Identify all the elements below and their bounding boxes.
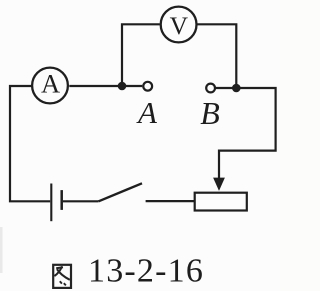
wire: node B to top-right corner down to rheostat slider xyxy=(216,88,276,179)
voltmeter V body xyxy=(161,7,197,43)
wire: ammeter left lead down to battery xyxy=(10,86,50,201)
svg-text:13-2-16: 13-2-16 xyxy=(88,253,204,290)
wire: voltmeter left lead xyxy=(122,24,160,86)
svg-text:A: A xyxy=(136,95,158,130)
switch S blade xyxy=(99,183,142,201)
svg-text:A: A xyxy=(41,68,60,98)
wire: battery to switch xyxy=(63,200,99,202)
rheostat slider arrowhead xyxy=(213,178,225,191)
junction dot at node A side xyxy=(118,82,127,91)
caption glyph 图 (drawn) xyxy=(53,265,71,288)
svg-text:V: V xyxy=(170,11,189,40)
rheostat R body xyxy=(195,193,247,211)
wire: voltmeter right lead xyxy=(197,24,236,88)
terminal A (open circle) xyxy=(143,82,152,91)
svg-text:B: B xyxy=(200,95,220,131)
wire: ammeter right lead to node A xyxy=(69,85,142,87)
battery: long thin plate xyxy=(50,184,52,222)
battery: short thick plate xyxy=(60,190,63,210)
junction dot at node B side xyxy=(232,84,241,93)
ammeter A body xyxy=(32,68,68,104)
scan smudge left edge xyxy=(0,227,3,273)
wire: switch to rheostat xyxy=(146,200,195,202)
terminal B (open circle) xyxy=(206,84,215,93)
